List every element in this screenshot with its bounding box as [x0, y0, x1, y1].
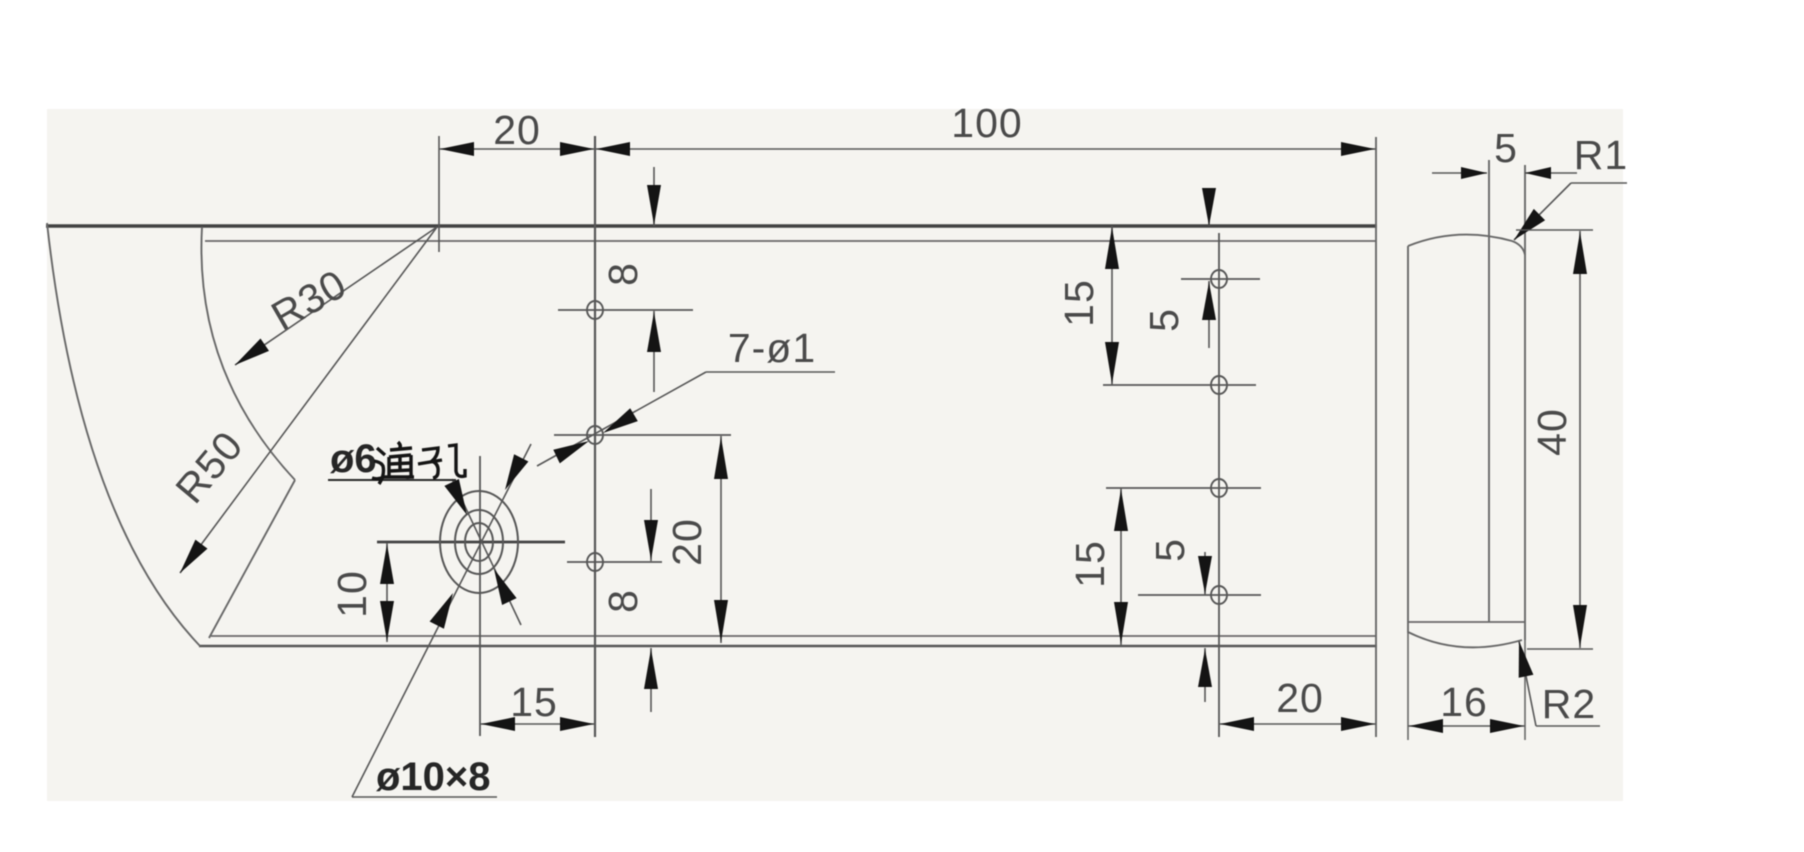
arrow 10 bottom [380, 601, 394, 641]
svg-text:15: 15 [1067, 540, 1113, 588]
leader o10x8 underline [352, 796, 497, 798]
arrow 15bl left [481, 717, 515, 731]
leader 7-o1 arrow 1 [603, 408, 638, 433]
arrow 15tr bottom [1105, 342, 1119, 384]
small hole o1 #3 at (595,562) [587, 553, 603, 571]
svg-text:5: 5 [1147, 538, 1193, 562]
R1 leader arrow [1514, 209, 1545, 240]
extension 40 top [1516, 229, 1593, 231]
arrow 20 right [560, 142, 594, 156]
arrow 8b down [644, 520, 658, 560]
leader o6 underline [328, 479, 456, 481]
big hole outer circle o10 [440, 491, 518, 593]
extension 40 bottom [1527, 648, 1593, 650]
centerline hole (1219,488) [1106, 487, 1261, 489]
centerline big hole vertical [479, 456, 481, 736]
centerline column x=595 [594, 136, 596, 737]
side view left extension line [1407, 633, 1409, 740]
big hole middle circle o6 [455, 510, 503, 574]
arrow 8t down [647, 185, 661, 225]
svg-text:R2: R2 [1542, 681, 1596, 727]
dimension 20 bottom right line [1219, 723, 1376, 725]
centerline hole (1219,279) [1181, 278, 1260, 280]
svg-text:5: 5 [1141, 308, 1187, 332]
side view bottom arc [1408, 632, 1522, 647]
side view top arc [1408, 235, 1525, 255]
main view bottom edge [199, 645, 1377, 648]
small hole o1 #6 at (1219,488) [1211, 479, 1227, 497]
arrow 5 left [1461, 167, 1487, 179]
extension line x=439 [438, 136, 440, 252]
svg-text:ø10×8: ø10×8 [376, 755, 491, 799]
svg-text:15: 15 [1056, 279, 1102, 327]
R2 leader diagonal [1519, 641, 1536, 726]
arrow 20m top [714, 437, 728, 479]
side view bottom inner line [1408, 621, 1525, 623]
arrow 5br up [1198, 649, 1212, 687]
svg-text:16: 16 [1440, 679, 1488, 725]
leader 7-o1 underline [706, 371, 835, 373]
dimension 5 bottom-right lower segment [1204, 648, 1206, 702]
main view right edge with extensions [1375, 137, 1377, 737]
svg-text:ø6: ø6 [330, 437, 377, 481]
arrow 15br bottom [1114, 602, 1128, 644]
R2 leader underline [1536, 725, 1600, 727]
dimension 100 top line [595, 148, 1376, 150]
dimension 20 middle line [720, 436, 722, 643]
main view inner bottom line [211, 635, 1376, 637]
big hole inner circle [465, 523, 493, 561]
chamfer line [209, 480, 295, 638]
arrow 5tr up [1202, 282, 1216, 320]
leader o10x8 line [352, 444, 531, 797]
arrow 20 left [440, 142, 474, 156]
leader R30 arrow [235, 339, 269, 366]
dimension 16 line [1408, 725, 1525, 727]
centerline hole (1219,595) [1138, 594, 1261, 596]
R1 leader underline [1571, 182, 1627, 184]
arrow 16 right [1490, 719, 1524, 733]
leader o10x8 arrow 1 [430, 593, 453, 629]
arrow 15bl right [560, 717, 594, 731]
centerline hole (595,310) [558, 309, 693, 311]
dimension 15 bottom line [480, 723, 595, 725]
svg-text:15: 15 [510, 679, 558, 725]
leader o6 arrow 2 [494, 569, 517, 605]
dimension 8 top upper segment [653, 167, 655, 226]
leader o10x8 arrow 2 [505, 454, 528, 490]
centerline hole (595,435) [554, 434, 731, 436]
arrow 5 right [1525, 167, 1551, 179]
arrow 8t up [647, 312, 661, 352]
arrow 8b up [644, 649, 658, 689]
main view inner top line [205, 240, 1376, 242]
arrow 5tr down [1202, 188, 1216, 226]
svg-text:100: 100 [951, 100, 1022, 146]
dimension 5 top-right upper segment [1208, 188, 1210, 226]
arrow 20br right [1341, 717, 1375, 731]
scan background [47, 109, 1623, 801]
text tongkong (through hole chars) [372, 442, 414, 484]
small hole o1 #4 at (1219,279) [1211, 270, 1227, 288]
leader 7-o1 arrow 2 [553, 441, 589, 463]
R30 arc [201, 227, 295, 480]
side view right edge with extension [1524, 165, 1526, 640]
arrow 100 right [1341, 142, 1375, 156]
R50 arc left outline [47, 223, 200, 646]
small hole o1 #1 at (595,310) [587, 301, 603, 319]
R1 leader diagonal [1514, 183, 1571, 240]
arrow 20m bottom [714, 600, 728, 642]
arrow 15br top [1114, 489, 1128, 531]
svg-text:8: 8 [600, 589, 646, 613]
side view left edge [1407, 246, 1409, 633]
main view top edge [46, 224, 1377, 228]
arrow 20br left [1220, 717, 1254, 731]
svg-text:20: 20 [1276, 675, 1324, 721]
leader 7-o1 line [537, 372, 706, 466]
leader o6 line [452, 479, 521, 625]
leader o6 arrow 1 [444, 479, 467, 515]
arrow 5br down [1198, 556, 1212, 594]
svg-text:7-ø1: 7-ø1 [728, 325, 816, 371]
svg-text:20: 20 [664, 518, 710, 566]
svg-text:20: 20 [493, 107, 541, 153]
centerline hole (1219,385) [1103, 384, 1256, 386]
arrow 40 bottom [1573, 605, 1587, 647]
side view right bottom extension [1524, 640, 1526, 740]
dimension 15 top-right line [1111, 226, 1113, 385]
dimension 8 top lower segment [653, 311, 655, 392]
arrow 15tr top [1105, 227, 1119, 269]
arrow 10 top [380, 544, 394, 584]
svg-text:5: 5 [1494, 125, 1518, 171]
svg-text:R1: R1 [1574, 132, 1628, 178]
dimension 5 side left segment [1432, 172, 1487, 174]
dimension 10 line [386, 543, 388, 642]
small hole o1 #5 at (1219,385) [1211, 376, 1227, 394]
dimension 5 bottom-right upper segment [1204, 552, 1206, 595]
leader R50 line [180, 227, 437, 573]
arrow 100 left [596, 142, 630, 156]
centerline big hole horizontal [377, 541, 565, 544]
side view inner line with extension [1488, 160, 1490, 622]
arrow 40 top [1573, 232, 1587, 274]
dimension 5 top-right lower segment [1208, 281, 1210, 348]
small hole o1 #2 at (595,435) [587, 426, 603, 444]
dimension 40 line [1579, 231, 1581, 648]
dimension 5 side right segment [1525, 172, 1577, 174]
dimension 15 bottom-right line [1120, 488, 1122, 645]
dimension 8 bottom upper segment [650, 489, 652, 561]
svg-text:40: 40 [1529, 408, 1575, 456]
centerline hole (595,562) [567, 561, 662, 563]
R2 leader arrow [1519, 641, 1534, 678]
small hole o1 #7 at (1219,595) [1211, 586, 1227, 604]
svg-text:10: 10 [329, 570, 375, 618]
leader R50 arrow [180, 540, 208, 573]
svg-text:8: 8 [600, 262, 646, 286]
dimension 8 bottom lower segment [650, 648, 652, 712]
dimension 20 top line [439, 148, 595, 150]
arrow 16 left [1409, 719, 1443, 733]
leader R30 line [235, 227, 437, 365]
centerline column x=1219 [1218, 233, 1220, 737]
